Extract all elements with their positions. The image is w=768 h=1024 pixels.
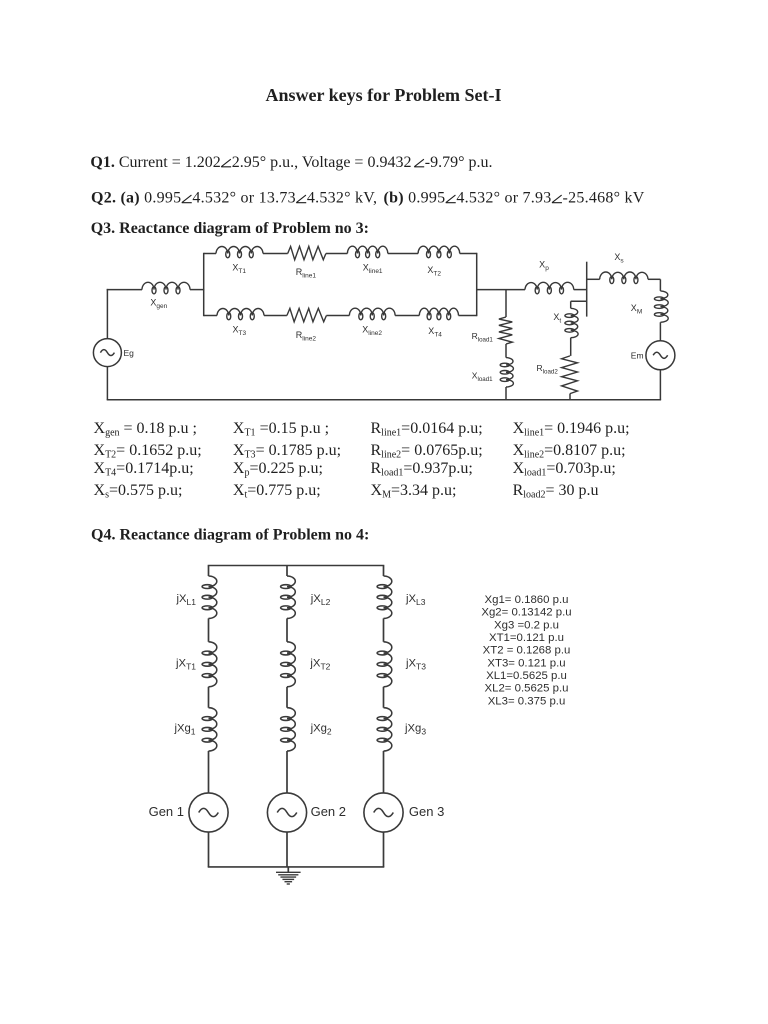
text Q4 reactance values bbox=[481, 594, 571, 707]
wire Xp to bar bbox=[574, 289, 587, 291]
svg-text:Xg3 =0.2 p.u: Xg3 =0.2 p.u bbox=[494, 619, 559, 631]
wire bar to Xt stub bbox=[571, 300, 587, 302]
wire bottom rail bbox=[107, 399, 661, 401]
wire jXL3 to jXT3 bbox=[383, 618, 385, 641]
wire jXL1 to jXT1 bbox=[208, 618, 210, 641]
resistor Rload1 bbox=[499, 317, 512, 344]
svg-text:(b): (b) bbox=[384, 190, 409, 207]
svg-text:4.532° kV,: 4.532° kV, bbox=[307, 190, 382, 207]
inductor Xline1 bbox=[347, 246, 387, 258]
wire XT4 to right join bbox=[459, 315, 477, 317]
wire Xload1 to rail bbox=[505, 387, 507, 400]
wire XT2 to right join bbox=[460, 253, 477, 255]
text Q1 answer line bbox=[90, 154, 492, 171]
wire Gen 3 to bottom bus bbox=[383, 832, 385, 867]
svg-text:-25.468° kV: -25.468° kV bbox=[563, 190, 645, 207]
wire Gen 1 to bottom bus bbox=[208, 832, 210, 867]
svg-text:4.532° or 7.93: 4.532° or 7.93 bbox=[456, 190, 551, 207]
svg-text:0.995: 0.995 bbox=[144, 190, 181, 207]
inductor jXL3 bbox=[377, 576, 392, 618]
svg-text:XL1=0.5625 p.u: XL1=0.5625 p.u bbox=[486, 670, 567, 682]
generator Gen 1 (AC source) bbox=[189, 793, 228, 832]
Q4 bottom bus bbox=[208, 866, 385, 868]
wire Eg top horizontal bbox=[107, 289, 142, 291]
inductor XT4 bbox=[419, 308, 458, 320]
svg-text:Answer keys for Problem Set-I: Answer keys for Problem Set-I bbox=[266, 85, 502, 105]
wire left split vertical bbox=[203, 253, 205, 316]
wire load1 drop bbox=[505, 290, 507, 317]
svg-text:Gen 1: Gen 1 bbox=[149, 804, 184, 819]
svg-text:Gen 3: Gen 3 bbox=[409, 804, 444, 819]
wire jXg3 to Gen 3 bbox=[383, 751, 385, 793]
inductor jXg2 bbox=[281, 708, 296, 751]
inductor jXg1 bbox=[202, 708, 217, 751]
wire right join vertical bbox=[476, 253, 478, 316]
inductor Xgen bbox=[142, 282, 190, 294]
wire Rline1 to Xline1 bbox=[326, 253, 348, 255]
Q4 top bus bbox=[208, 565, 385, 567]
inductor XT1 bbox=[216, 247, 263, 258]
svg-text:4.532° or 13.73: 4.532° or 13.73 bbox=[192, 190, 295, 207]
wire Em to rail bbox=[659, 370, 661, 400]
svg-text:Q4. Reactance diagram of Probl: Q4. Reactance diagram of Problem no 4: bbox=[91, 526, 369, 543]
wire jXg2 to Gen 2 bbox=[286, 751, 288, 793]
svg-text:(a): (a) bbox=[120, 190, 144, 207]
svg-text:XT1=0.121 p.u: XT1=0.121 p.u bbox=[489, 632, 564, 644]
wire ground stem bbox=[287, 867, 289, 872]
inductor jXT2 bbox=[281, 642, 296, 687]
wire bottom branch lead-in bbox=[204, 315, 217, 317]
wire branch 2 bus to jXL2 bbox=[286, 566, 288, 577]
inductor Xline2 bbox=[349, 308, 395, 320]
svg-text:XT2 = 0.1268 p.u: XT2 = 0.1268 p.u bbox=[483, 645, 571, 657]
wire top branch lead-in bbox=[204, 253, 216, 255]
generator Em (AC source) bbox=[646, 341, 675, 370]
transformer star-point bus bar bbox=[586, 262, 588, 317]
svg-text:Q1.: Q1. bbox=[90, 154, 118, 171]
wire Rload1 to Xload1 bbox=[505, 344, 507, 358]
wire branch 3 bus to jXL3 bbox=[383, 566, 385, 577]
inductor jXT1 bbox=[202, 642, 217, 687]
inductor Xt bbox=[565, 308, 578, 337]
wire Xs to corner bbox=[648, 278, 660, 280]
svg-text:Current = 1.202: Current = 1.202 bbox=[119, 154, 221, 171]
wire Xline2 to XT4 bbox=[395, 315, 419, 317]
svg-text:Eg: Eg bbox=[124, 348, 135, 358]
wire XT1 to Rline1 bbox=[263, 253, 288, 255]
wire Xgen to split bbox=[190, 289, 204, 291]
svg-text:XL2= 0.5625 p.u: XL2= 0.5625 p.u bbox=[485, 683, 569, 695]
wire XT3 to Rline2 bbox=[264, 315, 287, 317]
svg-text:Em: Em bbox=[631, 350, 644, 360]
wire bar to Xs bbox=[587, 278, 600, 280]
inductor Xp bbox=[525, 282, 574, 294]
svg-text:Xg2= 0.13142 p.u: Xg2= 0.13142 p.u bbox=[481, 607, 571, 619]
text Q2 answer line bbox=[91, 190, 645, 207]
wire Eg to rail bbox=[106, 367, 108, 400]
inductor Xs bbox=[600, 272, 648, 284]
wire branch 1 bus to jXL1 bbox=[208, 566, 210, 577]
resistor Rload2 bbox=[562, 356, 578, 394]
inductor Xload1 bbox=[500, 358, 513, 387]
wire jXT1 to jXg1 bbox=[208, 687, 210, 708]
wire Xline1 to XT2 bbox=[388, 253, 418, 255]
inductor jXT3 bbox=[377, 642, 392, 687]
wire jXT2 to jXg2 bbox=[286, 687, 288, 708]
inductor XT2 bbox=[418, 246, 460, 258]
wire mid wire to Xp bbox=[477, 289, 525, 291]
wire Eg to Xgen riser bbox=[106, 289, 108, 339]
resistor Rline1 bbox=[288, 246, 326, 259]
inductor jXL1 bbox=[202, 576, 217, 618]
wire Xt to Rload2 bbox=[570, 338, 572, 356]
wire Rload2 to rail bbox=[569, 394, 571, 400]
wire XM to Em bbox=[659, 322, 661, 341]
svg-text:-9.79° p.u.: -9.79° p.u. bbox=[425, 154, 493, 171]
resistor Rline2 bbox=[287, 308, 327, 321]
wire Gen 2 to bottom bus bbox=[286, 832, 288, 867]
svg-text:Q3. Reactance diagram of Probl: Q3. Reactance diagram of Problem no 3: bbox=[91, 220, 369, 237]
svg-text:Gen 2: Gen 2 bbox=[311, 804, 346, 819]
svg-text:Q2.: Q2. bbox=[91, 190, 120, 207]
svg-text:XL3= 0.375 p.u: XL3= 0.375 p.u bbox=[488, 695, 566, 707]
svg-text:2.95° p.u., Voltage = 0.9432: 2.95° p.u., Voltage = 0.9432 bbox=[232, 154, 412, 171]
inductor XT3 bbox=[217, 309, 264, 320]
generator Gen 2 (AC source) bbox=[267, 793, 306, 832]
wire jXL2 to jXT2 bbox=[286, 618, 288, 641]
wire Rline2 to Xline2 bbox=[326, 315, 349, 317]
svg-text:0.995: 0.995 bbox=[408, 190, 445, 207]
svg-text:Xg1= 0.1860 p.u: Xg1= 0.1860 p.u bbox=[485, 594, 569, 606]
wire Xt drop bbox=[570, 301, 572, 308]
inductor XM bbox=[654, 291, 668, 322]
wire jXg1 to Gen 1 bbox=[208, 751, 210, 793]
generator Eg (AC source) bbox=[93, 339, 121, 367]
wire corner down to XM bbox=[659, 279, 661, 291]
generator Gen 3 (AC source) bbox=[364, 793, 403, 832]
inductor jXL2 bbox=[281, 576, 296, 618]
ground symbol bbox=[276, 872, 301, 884]
inductor jXg3 bbox=[377, 708, 392, 751]
wire jXT3 to jXg3 bbox=[383, 687, 385, 708]
svg-text:XT3= 0.121 p.u: XT3= 0.121 p.u bbox=[487, 657, 565, 669]
